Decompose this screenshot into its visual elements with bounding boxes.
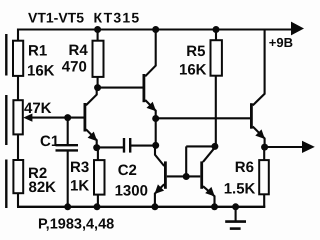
- left edge artifact wire 2: [5, 95, 7, 145]
- transistor VT5 emitter arrow: [255, 129, 265, 139]
- svg-text:R5: R5: [186, 43, 205, 60]
- left edge artifact wire 3: [5, 160, 7, 209]
- node C1 bottom rail junction: [64, 203, 71, 210]
- capacitor C2: [123, 138, 125, 153]
- transistor Q VT3 base bar: [164, 161, 167, 188]
- transistor Q VT2 base bar: [143, 74, 146, 102]
- node ground rail junction: [232, 203, 239, 210]
- transistor Q VT4 base bar: [200, 161, 203, 188]
- capacitor C1: [56, 144, 79, 146]
- transistor VT5 collector: [253, 31, 265, 106]
- wire bottom ground rail: [17, 206, 265, 208]
- wire base tie vertical: [185, 146, 187, 176]
- wire VT3 base to VT4 base: [167, 175, 201, 177]
- resistor R5: [211, 40, 222, 75]
- svg-text:82K: 82K: [29, 179, 57, 196]
- node R4 top rail junction: [94, 26, 101, 33]
- +9V supply arrow: [291, 22, 304, 36]
- transistor VT3 collector: [155, 145, 164, 166]
- svg-text:1.5K: 1.5K: [224, 181, 256, 198]
- node wiper/C1/VT1 base junction: [64, 114, 71, 121]
- node R5 top rail junction: [213, 26, 220, 33]
- node R3 bottom rail junction: [94, 203, 101, 210]
- svg-text:+9В: +9В: [269, 35, 293, 50]
- wire left drop rail to R1: [17, 29, 19, 42]
- svg-text:R1: R1: [28, 42, 47, 59]
- svg-text:КТ315: КТ315: [94, 9, 141, 25]
- wire node to VT5 base: [156, 117, 250, 119]
- resistor R4: [93, 41, 104, 77]
- svg-text:R3: R3: [70, 159, 89, 176]
- transistor Q VT1 base bar: [84, 103, 87, 132]
- output arrow: [302, 141, 315, 153]
- node VT4 emitter rail junction: [211, 203, 218, 210]
- wire R2 to bottom rail: [17, 193, 19, 207]
- svg-text:R4: R4: [69, 42, 89, 59]
- svg-text:1K: 1K: [70, 178, 89, 195]
- ground stub wire: [235, 207, 237, 221]
- transistor VT2 emitter: [145, 100, 156, 146]
- wire R1 to pot: [17, 76, 19, 100]
- node VT2 collector rail junction: [152, 26, 159, 33]
- transistor VT1 emitter: [86, 129, 97, 147]
- wire R3 top lead: [97, 148, 99, 161]
- svg-text:470: 470: [62, 59, 87, 76]
- wire R4 to node: [97, 77, 99, 88]
- wire R5 top lead: [215, 30, 217, 41]
- resistor R6: [259, 160, 269, 194]
- node base tie junction: [183, 173, 190, 180]
- wire VT1 emitter node to C2: [97, 146, 124, 148]
- svg-text:16K: 16K: [179, 62, 207, 79]
- resistor R1: [13, 41, 23, 76]
- wire base tie top horizontal: [186, 145, 215, 147]
- potentiometer wiper arrow: [31, 117, 84, 119]
- potentiometer 47K body: [13, 100, 22, 134]
- wire output: [265, 146, 303, 148]
- transistor VT1 collector: [86, 88, 97, 106]
- wire pot to R2: [17, 134, 19, 160]
- transistor VT4 emitter: [203, 186, 215, 207]
- transistor VT2 emitter arrow: [147, 102, 157, 112]
- wire R6 top lead: [263, 147, 265, 160]
- transistor VT3 emitter arrow: [155, 184, 165, 194]
- svg-text:47K: 47K: [24, 100, 52, 117]
- left edge artifact wire 1: [5, 34, 7, 76]
- wire rail to R4: [97, 30, 99, 42]
- wire C1 to bottom rail: [67, 152, 69, 207]
- svg-text:R6: R6: [235, 159, 254, 176]
- wire R6 to bottom rail: [263, 194, 265, 207]
- transistor VT4 emitter arrow: [205, 187, 215, 197]
- ground symbol: [225, 220, 246, 223]
- wire node down to C1: [67, 118, 69, 145]
- resistor R3: [94, 160, 105, 195]
- resistor R2: [13, 160, 23, 193]
- node VT5 emitter output junction: [261, 144, 268, 151]
- wire top +9V rail: [18, 28, 292, 30]
- transistor Q VT5 base bar: [250, 103, 253, 129]
- svg-text:VT1-VT5: VT1-VT5: [28, 9, 84, 25]
- transistor VT5 emitter: [253, 127, 265, 148]
- node R4/VT1 collector/VT2 base: [94, 84, 101, 91]
- wire R5 to VT4 collector node: [215, 76, 217, 147]
- svg-text:C1: C1: [40, 133, 59, 150]
- wire C2 to VT3 collector node: [130, 145, 155, 147]
- transistor VT1 emitter arrow: [88, 132, 98, 142]
- svg-text:Р,1983,4,48: Р,1983,4,48: [38, 216, 114, 232]
- node R5 / VT4 collector / base tie: [211, 143, 218, 150]
- svg-text:C2: C2: [118, 162, 137, 179]
- node VT2 emitter / VT5 base: [152, 115, 159, 122]
- node C2 / VT3 collector: [152, 142, 159, 149]
- wire R3 to bottom rail: [97, 195, 99, 207]
- node VT3 emitter rail junction: [151, 203, 158, 210]
- wire node to VT2 base: [98, 87, 143, 89]
- svg-text:1300: 1300: [115, 182, 148, 199]
- transistor VT3 emitter: [155, 184, 164, 207]
- transistor VT4 collector: [203, 148, 214, 162]
- transistor VT2 collector: [145, 31, 156, 77]
- svg-text:16K: 16K: [27, 63, 55, 80]
- node VT1 emitter / C2 / R3: [93, 144, 100, 151]
